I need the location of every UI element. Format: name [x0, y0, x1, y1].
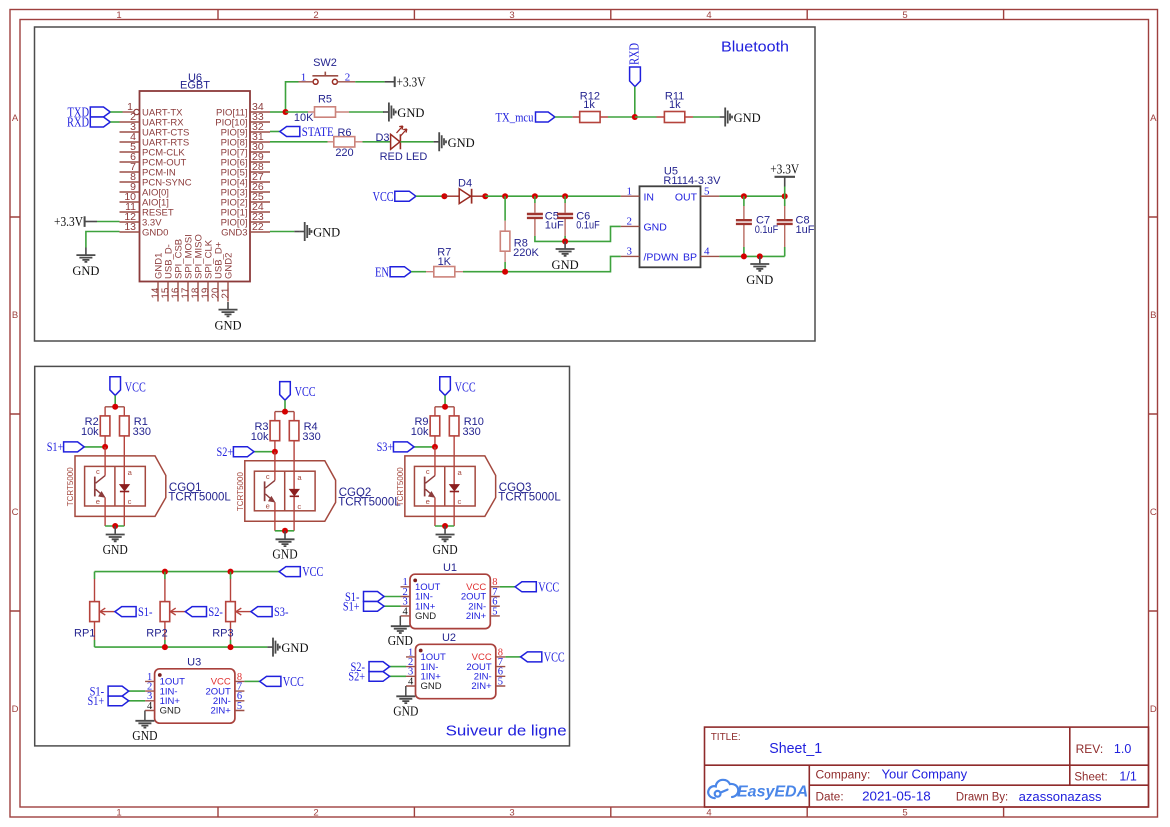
wire RP3 bottom: [230, 640, 232, 647]
svg-text:Sheet:: Sheet:: [1074, 771, 1107, 783]
U6 right pin numbers: [252, 101, 264, 233]
svg-text:B: B: [1150, 310, 1156, 321]
capacitor C8: [777, 196, 815, 256]
svg-text:A: A: [1150, 113, 1157, 124]
capacitor C7: [736, 196, 779, 256]
svg-text:R2: R2: [85, 416, 99, 428]
svg-text:RP3: RP3: [212, 627, 233, 639]
svg-text:Bluetooth: Bluetooth: [721, 40, 789, 56]
port TXD: [68, 104, 111, 119]
capacitor C5: [527, 196, 564, 236]
junction node at R5/SW2: [283, 109, 289, 115]
svg-text:2: 2: [627, 216, 633, 228]
svg-text:21: 21: [220, 288, 231, 299]
svg-text:TX_mcu: TX_mcu: [496, 109, 534, 124]
svg-text:1: 1: [627, 185, 633, 197]
op-amp U6 module EGBT: [140, 72, 251, 282]
svg-text:S3+: S3+: [377, 439, 394, 454]
svg-text:2: 2: [313, 807, 318, 818]
svg-text:Your Company: Your Company: [882, 768, 968, 782]
svg-text:U3: U3: [187, 656, 201, 668]
svg-text:S1+: S1+: [88, 693, 105, 708]
svg-text:D: D: [1150, 704, 1157, 715]
svg-text:S2+: S2+: [217, 444, 234, 459]
svg-text:+3.3V: +3.3V: [54, 215, 83, 230]
wire U5 OUT to +3.3V: [719, 195, 784, 197]
power flag +3.3V at U5 output: [770, 163, 799, 197]
svg-text:A: A: [12, 113, 19, 124]
svg-text:S2-: S2-: [208, 604, 223, 619]
ground below C6: [552, 241, 579, 272]
node at C6 top: [562, 193, 568, 199]
optocoupler sensor CGQ2 TCRT5000: [233, 382, 335, 563]
svg-text:1: 1: [116, 807, 121, 818]
svg-text:2: 2: [345, 72, 351, 84]
svg-text:0.1uF: 0.1uF: [755, 224, 779, 236]
svg-text:13: 13: [124, 221, 136, 233]
U6 bottom pin stubs 14-21: [158, 282, 228, 302]
wire U5 BP bottom rail: [719, 255, 784, 257]
wire U6 pin22 GND3 to ground: [270, 231, 294, 233]
svg-text:4: 4: [706, 10, 711, 21]
svg-text:R4: R4: [304, 421, 318, 433]
ground at U6 pin21: [214, 302, 241, 333]
svg-text:1k: 1k: [669, 99, 681, 111]
svg-text:Suiveur de ligne: Suiveur de ligne: [446, 724, 567, 740]
ground at pot bus: [267, 638, 308, 657]
wire TXD to U6 pin1: [110, 111, 122, 113]
svg-text:1uF: 1uF: [796, 224, 815, 236]
switch SW2: [299, 57, 356, 84]
diode D4: [444, 178, 485, 204]
op-amp U1: [364, 574, 560, 649]
svg-text:10K: 10K: [294, 112, 314, 124]
U6 left pin names: [142, 107, 192, 238]
svg-text:5: 5: [704, 185, 710, 197]
U6 bottom pin names: [154, 234, 235, 279]
svg-text:220: 220: [335, 147, 353, 159]
junction node TX divider: [632, 114, 638, 120]
svg-text:Sheet_1: Sheet_1: [769, 741, 822, 757]
wire R12 to node: [608, 116, 635, 118]
wire VCC top bus of potentiometers: [95, 571, 280, 573]
svg-text:1.0: 1.0: [1114, 742, 1131, 756]
svg-text:C: C: [1150, 507, 1157, 518]
svg-text:S2+: S2+: [348, 669, 365, 684]
svg-text:GND2: GND2: [224, 253, 235, 279]
U6 left pin stubs 1-13: [120, 112, 140, 232]
wire D3 to ground: [400, 141, 433, 143]
wire RP1 bottom: [94, 640, 96, 647]
resistor R5: [286, 94, 350, 124]
svg-text:RP2: RP2: [146, 627, 167, 639]
wire VCC to D4: [416, 195, 445, 197]
title block: [705, 727, 1149, 807]
port RXD (down): [627, 43, 642, 87]
svg-text:OUT: OUT: [675, 191, 698, 203]
wire RXD down to node: [634, 87, 636, 117]
node R8/EN: [502, 269, 508, 275]
svg-text:1uF: 1uF: [545, 220, 564, 232]
wire SW2 pin2 to +3.3V: [355, 81, 384, 83]
svg-text:1: 1: [301, 72, 307, 84]
svg-text:TCRT5000L: TCRT5000L: [498, 492, 561, 504]
svg-text:EasyEDA: EasyEDA: [737, 784, 808, 801]
node bus/RP3: [228, 569, 234, 575]
wire R8 bottom to EN net: [504, 262, 506, 272]
svg-text:EN: EN: [375, 264, 389, 279]
svg-text:U1: U1: [443, 562, 457, 574]
EasyEDA logo: [708, 780, 808, 801]
svg-text:GND: GND: [644, 222, 668, 234]
wire R7 to U5 /PDWN: [463, 256, 621, 271]
svg-text:5: 5: [902, 10, 907, 21]
svg-text:+3.3V: +3.3V: [770, 163, 799, 178]
wire R11 to ground: [693, 116, 720, 118]
svg-text:1K: 1K: [438, 256, 452, 268]
node bus/RP2: [162, 569, 168, 575]
svg-text:GND3: GND3: [221, 227, 247, 238]
optocoupler sensor CGQ3 TCRT5000: [393, 377, 495, 558]
wire U6 pin34 to node: [270, 111, 286, 113]
svg-text:220K: 220K: [513, 247, 539, 259]
power flag +3.3V at U6 pin 12: [54, 215, 97, 230]
svg-text:3: 3: [509, 10, 514, 21]
port S1- at RP1: [115, 604, 153, 619]
node at BP ground: [757, 253, 763, 259]
node RP2 bottom: [162, 644, 168, 650]
port EN: [375, 264, 411, 279]
svg-text:TCRT5000L: TCRT5000L: [338, 497, 401, 509]
U6 bottom pin numbers: [150, 287, 231, 298]
svg-text:TCRT5000L: TCRT5000L: [168, 492, 231, 504]
op-amp U3: [108, 669, 304, 744]
wire RXD to U6 pin2: [110, 121, 119, 123]
svg-text:REV:: REV:: [1076, 742, 1104, 756]
wire R5 to ground: [349, 111, 384, 113]
svg-text:STATE: STATE: [302, 124, 334, 139]
port RXD: [67, 114, 110, 129]
svg-text:Drawn By:: Drawn By:: [956, 791, 1008, 803]
svg-text:S1-: S1-: [138, 604, 153, 619]
svg-text:RXD: RXD: [67, 114, 89, 129]
svg-text:2021-05-18: 2021-05-18: [862, 790, 931, 804]
node at D4 anode: [441, 193, 447, 199]
wire cap bottoms bus to U5 GND pin: [535, 226, 621, 241]
svg-text:22: 22: [252, 221, 264, 233]
svg-text:D4: D4: [458, 178, 472, 190]
port TX_mcu: [496, 109, 555, 124]
wire SW2 pin1 down to node: [286, 82, 299, 112]
svg-text:S1+: S1+: [343, 599, 360, 614]
resistor R6: [328, 127, 363, 159]
op-amp U2: [369, 644, 565, 719]
U6 right pin names: [215, 107, 247, 238]
svg-text:GND0: GND0: [142, 227, 168, 238]
svg-text:R10: R10: [464, 416, 484, 428]
svg-text:VCC: VCC: [373, 189, 394, 204]
potentiometer RP1: [74, 572, 115, 640]
svg-text:R9: R9: [414, 416, 428, 428]
svg-text:Date:: Date:: [816, 791, 844, 803]
port S2- at RP2: [185, 604, 223, 619]
svg-text:VCC: VCC: [302, 564, 323, 579]
LED D3 RED LED: [375, 126, 427, 163]
wire GND bottom bus of potentiometers: [95, 646, 268, 648]
svg-text:R3: R3: [254, 421, 268, 433]
node RP3 bottom: [228, 644, 234, 650]
potentiometer RP3: [212, 572, 251, 640]
ground at U6 pin13: [72, 248, 99, 279]
svg-text:azassonazass: azassonazass: [1019, 790, 1102, 804]
svg-text:RED LED: RED LED: [380, 151, 428, 163]
ground right of D3: [434, 132, 475, 151]
svg-text:4: 4: [706, 807, 711, 818]
svg-text:1/1: 1/1: [1119, 769, 1136, 783]
svg-text:R5: R5: [318, 94, 332, 106]
node at C7 bottom: [741, 253, 747, 259]
svg-text:S3-: S3-: [274, 604, 289, 619]
svg-text:4: 4: [704, 246, 710, 258]
node at C6 bottom / ground: [562, 238, 568, 244]
resistor R8: [500, 196, 539, 262]
svg-text:3: 3: [627, 246, 633, 258]
wire TX_mcu to R12: [555, 116, 573, 118]
svg-text:EGBT: EGBT: [180, 80, 210, 92]
svg-text:SW2: SW2: [313, 57, 337, 69]
node at C8 top: [782, 193, 788, 199]
U6 left pin numbers: [124, 101, 136, 233]
wire +3.3V to U6 pin12: [97, 221, 120, 223]
U6 right pin stubs 34-22: [250, 112, 270, 232]
svg-text:1k: 1k: [583, 99, 595, 111]
resistor R12: [573, 90, 608, 122]
wire node to R11: [635, 116, 657, 118]
svg-text:IN: IN: [644, 191, 655, 203]
U6 pin 1 inversion bubble: [134, 109, 139, 114]
wire U6 pin13 to ground: [86, 232, 120, 248]
svg-text:RXD: RXD: [627, 43, 642, 65]
svg-text:/PDWN: /PDWN: [644, 252, 679, 264]
node at R8 top: [502, 193, 508, 199]
svg-text:5: 5: [902, 807, 907, 818]
wire R6 to D3: [363, 141, 391, 143]
svg-text:C: C: [12, 507, 19, 518]
ground below BP rail: [746, 256, 773, 287]
svg-text:BP: BP: [683, 252, 697, 264]
svg-text:2: 2: [313, 10, 318, 21]
svg-text:3: 3: [509, 807, 514, 818]
port VCC at pot bus: [279, 564, 323, 579]
node at C7 top: [741, 193, 747, 199]
svg-text:0.1uF: 0.1uF: [576, 220, 600, 232]
power flag +3.3V at SW2: [385, 75, 426, 90]
svg-text:Company:: Company:: [816, 770, 871, 782]
svg-text:R1: R1: [134, 416, 148, 428]
wire U6 pin31 to R6: [270, 141, 328, 143]
node at D4 cathode: [482, 193, 488, 199]
wire D4 to U5 IN: [485, 195, 620, 197]
ground right of R11: [720, 108, 761, 127]
optocoupler sensor CGQ1 TCRT5000: [64, 377, 166, 558]
svg-text:RP1: RP1: [74, 627, 95, 639]
svg-text:TITLE:: TITLE:: [711, 732, 741, 743]
svg-text:R6: R6: [337, 127, 351, 139]
svg-text:1: 1: [116, 10, 121, 21]
svg-text:B: B: [12, 310, 18, 321]
potentiometer RP2: [146, 572, 185, 640]
svg-text:S1+: S1+: [47, 439, 64, 454]
wire EN to R7: [411, 271, 426, 273]
svg-text:U2: U2: [442, 632, 456, 644]
svg-text:D3: D3: [375, 132, 389, 144]
wire RP2 bottom: [164, 640, 166, 647]
port STATE at U6 pin32: [270, 124, 334, 139]
capacitor C6: [557, 196, 600, 236]
port S3- at RP3: [251, 604, 289, 619]
ground right of R5: [382, 111, 385, 113]
svg-text:R1114-3.3V: R1114-3.3V: [663, 175, 721, 187]
node at C5 top: [532, 193, 538, 199]
svg-text:+3.3V: +3.3V: [397, 75, 426, 90]
svg-text:D: D: [12, 704, 19, 715]
voltage regulator U5 R1114-3.3V: [621, 165, 721, 267]
ground at U6 pin22: [294, 231, 299, 233]
resistor R11: [657, 90, 694, 122]
port VCC (bluetooth supply): [373, 189, 416, 204]
resistor R7: [426, 246, 463, 277]
